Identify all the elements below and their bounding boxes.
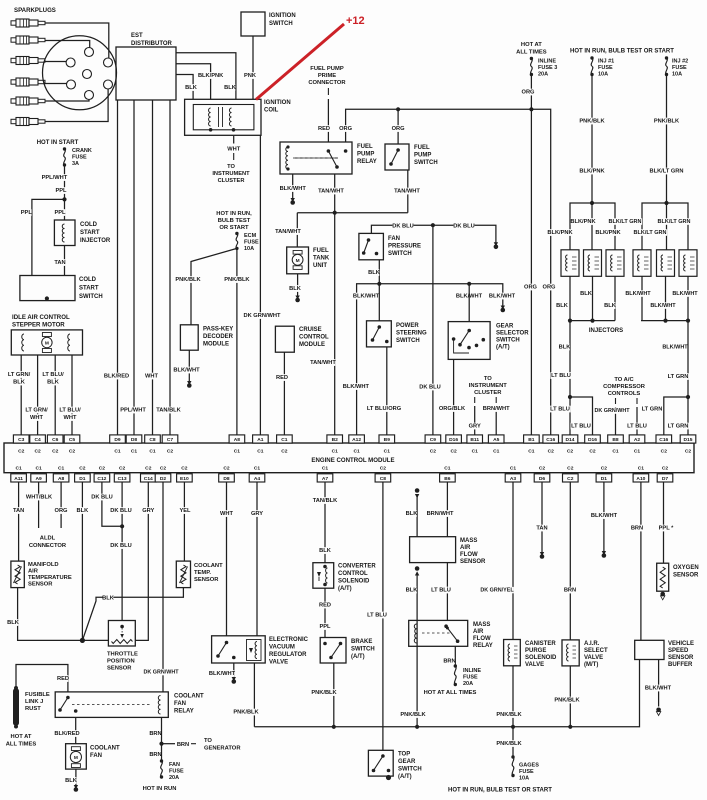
node BLK/WHT junction at gear selector [467,282,471,286]
label LT BLU/ORG [366,405,401,412]
connector C8 (ECM bottom) [375,474,391,482]
svg-text:FUSE: FUSE [463,675,478,681]
svg-text:C1: C1 [638,466,645,472]
wire distributor to coil BLK left [176,75,193,100]
svg-text:C2: C2 [18,449,25,455]
svg-text:C1: C1 [322,466,329,472]
wire crank fuse to PPL junction [64,165,66,199]
wire A9 to ALDL WHT/BLK [38,482,40,528]
wire distributor to C8 WHT [152,100,154,435]
svg-text:FUSE: FUSE [244,240,259,246]
svg-text:CONVERTER: CONVERTER [338,564,376,570]
label PPL [56,187,67,194]
connector A7 (ECM bottom) [317,474,333,482]
svg-text:FUSE: FUSE [72,155,87,161]
label BLK/WHT [592,512,617,519]
connector D1 (ECM bottom) [596,474,612,482]
svg-text:LT BLU: LT BLU [367,613,387,619]
svg-text:C1: C1 [634,449,641,455]
svg-text:BLK/PNK: BLK/PNK [570,219,596,225]
svg-text:SWITCH: SWITCH [351,647,375,653]
node DK BLU junction [431,223,435,227]
fuse FAN FUSE 20A [160,759,163,762]
svg-text:SENSOR: SENSOR [107,666,132,672]
svg-text:D2: D2 [160,476,167,482]
connector B6 (ECM bottom) [440,474,456,482]
svg-text:BLK/WHT: BLK/WHT [173,368,200,374]
label PPL [21,209,32,216]
svg-text:SWITCH: SWITCH [79,294,103,300]
wire gear selector ORG/BLK to D16 [453,359,455,435]
electronic vacuum regulator valve [212,636,266,663]
svg-text:FUSE: FUSE [169,769,184,775]
wire BLK branch to coolant temp sensor [82,588,183,641]
label GRY [469,423,480,430]
wire A7 TAN/BLK to converter control solenoid [324,482,326,563]
svg-text:BLK/PNK: BLK/PNK [595,230,621,236]
svg-text:PNK/BLK: PNK/BLK [175,277,201,283]
svg-text:C2: C2 [548,449,555,455]
connector A11 (ECM bottom) [11,474,27,482]
wire cruise control module RED to C1 [283,352,285,435]
svg-text:BLK/PNK: BLK/PNK [547,230,573,236]
+12 supply wire (red) [256,24,344,100]
svg-text:INJ #1: INJ #1 [598,59,614,65]
svg-text:PNK/BLK: PNK/BLK [224,277,250,283]
label GRY [143,507,154,514]
label BRN [444,658,455,665]
wire instrument cluster stub BRN/WHT to A5 [495,397,497,403]
connector B8 (ECM top) [608,435,624,443]
engine control module [4,443,694,473]
label BLK [557,302,568,309]
label PNK [245,72,256,79]
svg-text:BLK: BLK [47,380,60,386]
svg-text:C1: C1 [493,449,500,455]
wire A3 DK GRN/YEL to canister purge [512,482,514,640]
label LT GRN/WHT [24,407,49,414]
node ORG junction at inline fuse 3 [529,107,533,111]
svg-text:CONNECTOR: CONNECTOR [308,80,346,86]
svg-text:BLK/PNK: BLK/PNK [579,169,605,175]
label LT BLU [366,612,387,619]
svg-text:BLK/WHT: BLK/WHT [662,345,688,351]
svg-text:D16: D16 [449,437,458,443]
terminal MAF BLK bottom [415,566,420,571]
label LT GRN [667,423,688,430]
wire fan pressure switch BLK [378,260,380,284]
svg-text:ORG: ORG [392,126,406,132]
switch fuel pump switch [385,144,409,170]
wire distributor to D8 PPL/WHT [133,100,135,435]
svg-text:INJ #2: INJ #2 [672,59,688,65]
label DK GRN/WHT [244,312,279,319]
wire PNK/BLK to gages fuse [512,727,514,757]
terminal fuel tank unit ground [295,296,299,300]
svg-text:DK BLU: DK BLU [392,224,413,230]
label TAN/WHT [319,188,344,195]
terminal D6 TAN [540,552,544,556]
svg-text:BLK/LT GRN: BLK/LT GRN [634,230,667,236]
svg-text:BLK: BLK [185,85,198,91]
label BLK [369,269,380,276]
connector C6 (ECM top) [47,435,63,443]
svg-text:20A: 20A [169,775,179,781]
svg-text:THROTTLE: THROTTLE [107,652,138,658]
svg-text:PNK/BLK: PNK/BLK [311,690,337,696]
svg-text:AIR: AIR [473,629,484,635]
svg-text:VALVE: VALVE [269,660,288,666]
label DK BLU [110,542,131,549]
svg-text:A.I.R.: A.I.R. [584,641,600,647]
svg-text:LT GRN/: LT GRN/ [8,372,31,378]
wire DK BLU bus [371,225,496,243]
spark plug 2 [11,36,45,44]
svg-text:FUSE: FUSE [519,769,534,775]
wire distributor to coil BLK right [176,53,236,100]
label LT GRN [667,373,688,380]
wire fuel pump relay TAN/WHT to B2 [334,174,336,435]
svg-text:RED: RED [276,375,288,381]
label PPL [320,623,331,630]
connector C8 (ECM top) [145,435,161,443]
svg-text:C2: C2 [99,466,106,472]
connector D2 (ECM bottom) [155,474,171,482]
svg-text:C1: C1 [528,449,535,455]
svg-text:B2: B2 [332,437,339,443]
svg-text:C1: C1 [281,437,288,443]
terminal pass-key BLK/WHT [187,381,191,385]
svg-text:C9: C9 [430,437,437,443]
wire injector 5 to bottom bus [665,276,667,320]
svg-text:C2: C2 [685,449,692,455]
svg-text:SPEED: SPEED [668,648,689,654]
svg-text:A2: A2 [634,437,641,443]
node DK BLU junction [120,524,124,528]
svg-text:CRANK: CRANK [72,148,92,154]
label PPL/WHT [42,174,67,181]
svg-text:C2: C2 [539,466,546,472]
coolant fan motor [66,744,87,769]
svg-text:BUFFER: BUFFER [668,662,693,668]
svg-text:ECM: ECM [244,233,257,239]
manifold air temperature sensor [11,561,24,588]
svg-text:DK GRN/WHT: DK GRN/WHT [143,670,179,676]
svg-text:PPL *: PPL * [659,526,675,532]
label ORG [523,89,534,96]
svg-text:POWER: POWER [396,323,419,329]
label LT BLU [626,423,647,430]
svg-text:FUEL: FUEL [357,144,373,150]
wire A11 to MAT sensor TAN [18,482,20,561]
label BLK/WHT [663,344,687,351]
svg-text:FUSIBLE: FUSIBLE [25,692,50,698]
svg-text:D6: D6 [539,476,546,482]
label LT BLU [430,587,451,594]
pass-key decoder module [180,325,198,350]
svg-text:C1: C1 [58,466,65,472]
label PNK/BLK [312,689,337,696]
svg-text:START: START [80,230,100,236]
svg-text:BLK/LT GRN: BLK/LT GRN [658,219,691,225]
svg-text:TANK: TANK [313,256,330,262]
label BLK/WHT [626,290,650,297]
label PNK/BLK [176,276,201,283]
label RED [319,125,330,132]
terminal top gear switch [386,775,391,780]
connector C13 (ECM bottom) [114,474,130,482]
svg-text:C1: C1 [612,449,619,455]
connector B11 (ECM top) [467,435,483,443]
svg-text:C2: C2 [281,449,288,455]
canister purge solenoid valve [504,640,521,666]
node PNK/BLK junction AIR select [568,725,572,729]
label BRN/WHT [428,510,453,517]
wire C8 LT BLU to top gear switch [382,482,384,750]
svg-text:MODULE: MODULE [203,342,229,348]
svg-text:MODULE: MODULE [299,342,325,348]
wire injector top bus 2 [642,203,688,250]
svg-text:PNK/BLK: PNK/BLK [554,698,580,704]
vehicle speed sensor buffer [635,640,664,659]
label LT GRN/BLK [7,371,32,378]
label BLK [225,84,236,91]
label WHT [146,373,157,380]
svg-text:GRY: GRY [142,508,154,514]
wire injector bottom bus 2 [641,320,688,322]
svg-text:HOT IN START: HOT IN START [37,140,79,146]
svg-text:A9: A9 [35,476,42,482]
node PNK/BLK junction canister purge [511,725,515,729]
svg-text:C7: C7 [167,437,174,443]
label BLK/PNK [548,229,573,236]
label DK BLU [110,507,131,514]
svg-text:COIL: COIL [264,108,279,114]
connector D8 (ECM bottom) [219,474,235,482]
svg-text:CONTROLS: CONTROLS [608,391,641,397]
label BRN [150,730,161,737]
label TAN/BLK [313,497,338,504]
wire D2 DK GRN/WHT to coolant fan relay [162,482,164,692]
label BLK/WHT [490,293,515,300]
label WHT [221,510,232,517]
svg-text:FUEL: FUEL [313,248,329,254]
label BLK [406,510,417,517]
svg-text:A4: A4 [254,476,261,482]
terminal coolant fan ground [74,785,78,789]
svg-text:LINK J: LINK J [25,699,43,705]
label BLK/WHT [673,290,697,297]
wire A10 BRN to VSS buffer [640,482,642,640]
wire D1 BLK/WHT [603,482,605,552]
svg-text:E10: E10 [180,476,189,482]
svg-text:TO A/C: TO A/C [614,377,634,383]
svg-text:RED: RED [319,603,331,609]
svg-text:C1: C1 [257,449,264,455]
svg-text:PPL: PPL [54,210,66,216]
svg-text:HOT IN RUN, BULB TEST OR START: HOT IN RUN, BULB TEST OR START [570,49,674,55]
svg-text:FUEL: FUEL [414,145,430,151]
connector D9 (ECM top) [110,435,126,443]
svg-text:BLK/WHT: BLK/WHT [353,294,380,300]
label BLK/WHT [210,670,235,677]
label PPL [55,209,66,216]
label BLK [77,507,88,514]
node BLK/WHT junction at fan pressure switch [377,282,381,286]
idle air control stepper motor [11,330,82,355]
label BRN [150,751,161,758]
svg-text:DISTRIBUTOR: DISTRIBUTOR [131,41,173,47]
svg-text:PASS-KEY: PASS-KEY [203,327,233,333]
wire inline fuse 3 to ORG bus and down to B1 [530,75,532,435]
label ORG [393,125,404,132]
connector D7 (ECM bottom) [657,474,673,482]
svg-text:A5: A5 [493,437,500,443]
wire injector top bus 1 [570,203,615,250]
label BLK [103,595,114,602]
svg-text:SOLENOID: SOLENOID [525,655,557,661]
connector D6 (ECM bottom) [534,474,550,482]
label BLK/PNK [571,218,596,225]
svg-text:YEL: YEL [179,508,191,514]
svg-text:TAN: TAN [13,508,24,514]
wire ignition switch to coil PNK [252,36,254,99]
wire ECM fuse to A8 PNK/BLK [236,248,238,435]
svg-text:C2: C2 [601,466,608,472]
svg-text:10A: 10A [672,72,682,78]
node LT GRN junction [686,395,690,399]
wire junction to TPS [82,639,108,641]
svg-text:LT GRN: LT GRN [668,374,689,380]
svg-text:BULB TEST: BULB TEST [218,218,251,224]
label LT BLU/WHT [58,407,83,414]
fusible link J [13,689,19,726]
label BLK [66,777,77,784]
svg-text:PPL/WHT: PPL/WHT [120,408,146,414]
wire spark plug 2 to distributor [45,41,90,48]
svg-text:PUMP: PUMP [357,152,374,158]
svg-text:AIR: AIR [460,545,471,551]
wire power steering switch LT BLU/ORG to B9 [386,347,388,435]
wire stepper motor to C5 [71,355,73,435]
svg-text:20A: 20A [538,72,548,78]
svg-text:START: START [79,286,99,292]
label LT BLU [550,372,571,379]
wire C13 DK BLU to TPS [121,482,123,621]
svg-text:SPARKPLUGS: SPARKPLUGS [14,7,56,14]
svg-text:LT BLU/: LT BLU/ [42,372,64,378]
wire D7 PPL to oxygen sensor [663,482,665,563]
svg-text:RELAY: RELAY [357,159,377,165]
fuel tank unit [287,247,309,274]
svg-text:DK GRN/WHT: DK GRN/WHT [244,313,281,319]
svg-text:BRN: BRN [149,752,161,758]
svg-text:C8: C8 [149,437,156,443]
connector B9 (ECM top) [379,435,395,443]
terminal fuel pump relay BLK/WHT [291,198,295,202]
label BRN [565,587,576,594]
svg-text:COOLANT: COOLANT [174,694,204,700]
wire instrument cluster stub GRY to B11 [474,397,476,403]
svg-text:BLK/WHT: BLK/WHT [672,291,698,297]
label DK GRN/WHT [595,407,629,413]
label DK BLU [453,223,474,230]
wire PNK/BLK bus [254,660,639,727]
wire ignition coil to A1 DK GRN/WHT [259,135,261,435]
label PPL/WHT [121,407,146,414]
throttle position sensor [108,621,135,647]
svg-text:WHT: WHT [220,511,233,517]
terminal EVRV ground [232,677,236,681]
svg-text:B11: B11 [470,437,479,443]
connector A1 (ECM top) [253,435,269,443]
wire spark plug 1 to distributor [45,23,109,58]
wire E10 YEL to coolant temp sensor [183,482,185,561]
wire AIR select PNK/BLK to bus [569,666,571,727]
svg-text:B1: B1 [528,437,535,443]
svg-text:BRN: BRN [177,742,189,748]
svg-text:C2: C2 [181,466,188,472]
svg-text:C1: C1 [510,466,517,472]
wire MAF sensor LT BLU to relay [446,563,448,621]
label ORG [525,284,536,291]
label BLK/WHT [651,302,675,309]
label BLK/WHT [344,383,369,390]
svg-text:SWITCH: SWITCH [388,251,412,257]
label BLK/WHT [174,367,199,374]
node ORG junction at fuel pump switch [396,107,400,111]
svg-text:PURGE: PURGE [525,648,546,654]
wire coolant fan BLK to ground [75,769,77,786]
wire TAN/WHT branch to fuel tank unit [297,212,408,214]
label RED [277,374,288,381]
wire DK BLU to C9 [432,225,434,435]
svg-text:DK GRN/YEL: DK GRN/YEL [480,588,514,594]
svg-text:PUMP: PUMP [414,153,431,159]
label RED [320,602,331,609]
A.I.R. select valve [562,640,579,666]
connector D16 (ECM top) [585,435,601,443]
label PNK/BLK [225,276,250,283]
label ORG [544,284,555,291]
svg-text:BLK: BLK [77,508,90,514]
wire A/C stub LT BLU to A2 [636,398,638,404]
svg-text:SELECT: SELECT [584,648,608,654]
connector C1 (ECM top) [277,435,293,443]
switch fan pressure switch [359,233,384,259]
label PNK/BLK [401,711,426,718]
svg-text:C2: C2 [167,449,174,455]
svg-text:PNK/BLK: PNK/BLK [654,119,680,125]
svg-text:C2: C2 [450,449,457,455]
svg-text:PNK/BLK: PNK/BLK [400,712,426,718]
connector C16 (ECM top) [543,435,559,443]
label ORG/BLK [440,405,465,412]
svg-text:TEMPERATURE: TEMPERATURE [28,575,72,581]
wire canister purge PNK/BLK to bus [512,666,514,727]
svg-text:DK GRN/WHT: DK GRN/WHT [594,408,630,414]
svg-text:C13: C13 [118,476,127,482]
svg-text:10A: 10A [244,246,254,252]
svg-text:ORG: ORG [522,90,536,96]
svg-text:WHT: WHT [64,415,77,421]
label ORG [340,125,351,132]
svg-text:B9: B9 [384,437,391,443]
connector A3 (ECM bottom) [505,474,521,482]
label DK BLU [91,494,112,501]
svg-text:GEAR: GEAR [398,759,416,765]
label LT BLU/BLK [41,371,66,378]
